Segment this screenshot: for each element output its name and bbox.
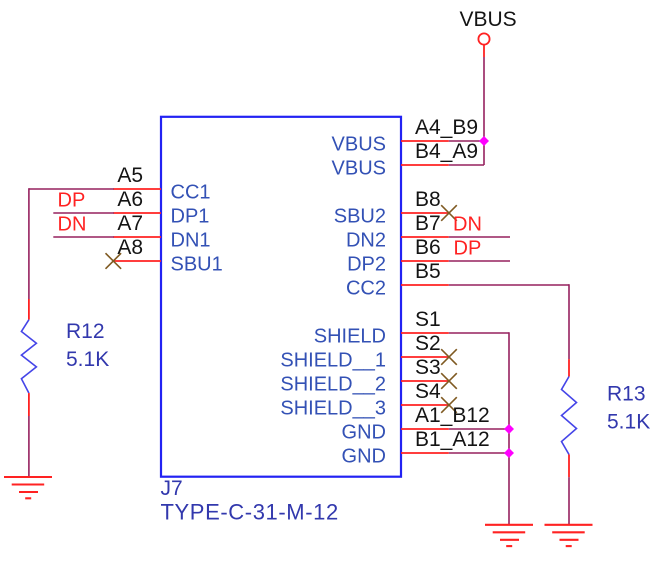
wire CC1 horizontal [29, 188, 114, 190]
svg-text:S1: S1 [415, 308, 441, 331]
no-connect X on pin SBU1 [106, 253, 122, 269]
ground symbol (R12) [4, 477, 52, 498]
svg-text:CC2: CC2 [346, 277, 386, 299]
pin CC2 (B5) [346, 260, 449, 299]
resistor R12 [21, 299, 109, 416]
pin DN1 (A7) [113, 212, 210, 251]
pin DP1 (A6) [113, 188, 209, 227]
wire DN net (left) [53, 236, 114, 238]
svg-text:A6: A6 [117, 188, 143, 211]
junction at VBUS node [479, 136, 489, 146]
svg-text:GND: GND [342, 421, 386, 443]
wire SHIELD vertical to ground [508, 332, 510, 525]
svg-text:DN: DN [58, 214, 87, 236]
no-connect X on pin SHIELD__2 [441, 373, 457, 389]
svg-text:A4_B9: A4_B9 [415, 116, 478, 139]
svg-text:GND: GND [342, 445, 386, 467]
power port VBUS [460, 8, 517, 57]
wire GND A1_B12 [449, 428, 509, 430]
svg-text:SBU1: SBU1 [171, 253, 223, 275]
svg-text:S2: S2 [415, 332, 441, 355]
no-connect X on pin SBU2 [441, 205, 457, 221]
junction at GND A1_B12 [504, 424, 514, 434]
svg-text:DP: DP [454, 238, 482, 260]
connector J7 body rectangle [161, 117, 401, 477]
svg-text:SHIELD__1: SHIELD__1 [280, 349, 386, 371]
pin SHIELD__2 (S3) [280, 356, 448, 395]
svg-text:R12: R12 [66, 320, 105, 343]
svg-text:A8: A8 [117, 236, 143, 259]
pin GND (B1_A12) [342, 428, 490, 467]
svg-text:DP1: DP1 [171, 205, 210, 227]
svg-text:SBU2: SBU2 [334, 205, 386, 227]
wire DN net (right) [449, 236, 510, 238]
svg-text:5.1K: 5.1K [66, 348, 109, 371]
svg-text:DN1: DN1 [171, 229, 211, 251]
svg-text:SHIELD: SHIELD [314, 325, 386, 347]
svg-text:VBUS: VBUS [332, 157, 386, 179]
no-connect X on pin SHIELD__3 [441, 397, 457, 413]
pin SBU1 (A8) [113, 236, 222, 275]
svg-text:DN: DN [453, 214, 482, 236]
svg-text:DN2: DN2 [346, 229, 386, 251]
svg-text:TYPE-C-31-M-12: TYPE-C-31-M-12 [161, 500, 339, 525]
svg-text:DP2: DP2 [347, 253, 386, 275]
wire R13 to ground [568, 477, 570, 525]
svg-text:DP: DP [58, 190, 86, 212]
pin SBU2 (B8) [334, 188, 449, 227]
wire CC2 horizontal [449, 284, 569, 286]
wire B4_A9 to VBUS net [449, 164, 484, 166]
ground symbol (SHIELD net) [485, 525, 533, 546]
svg-text:A7: A7 [117, 212, 143, 235]
wire SHIELD horizontal [449, 332, 509, 334]
pin VBUS (B4_A9) [332, 140, 479, 179]
pin CC1 (A5) [113, 164, 210, 203]
svg-text:SHIELD__3: SHIELD__3 [280, 397, 386, 419]
svg-text:B8: B8 [415, 188, 441, 211]
svg-text:B5: B5 [415, 260, 441, 283]
svg-text:S4: S4 [415, 380, 441, 403]
svg-text:B7: B7 [415, 212, 441, 235]
svg-text:B4_A9: B4_A9 [415, 140, 478, 163]
wire DP net (right) [449, 260, 510, 262]
svg-text:R13: R13 [607, 383, 646, 406]
wire GND B1_A12 [449, 452, 509, 454]
wire A4_B9 to VBUS net [449, 140, 484, 142]
pin DN2 (B7) [346, 212, 449, 251]
pin DP2 (B6) [347, 236, 449, 275]
svg-text:B1_A12: B1_A12 [415, 428, 490, 451]
svg-text:5.1K: 5.1K [607, 411, 650, 434]
pin SHIELD__3 (S4) [280, 380, 448, 419]
wire CC2 vertical to R13 [568, 284, 570, 359]
wire VBUS vertical [483, 57, 485, 165]
svg-text:A1_B12: A1_B12 [415, 404, 490, 427]
ground symbol (R13) [545, 525, 593, 546]
svg-text:A5: A5 [117, 164, 143, 187]
wire DP net (left) [53, 212, 114, 214]
junction at GND B1_A12 [504, 448, 514, 458]
svg-text:S3: S3 [415, 356, 441, 379]
svg-text:VBUS: VBUS [332, 133, 386, 155]
wire R12 to ground [28, 416, 30, 477]
resistor R13 [562, 359, 651, 477]
pin VBUS (A4_B9) [332, 116, 479, 155]
pin SHIELD (S1) [314, 308, 449, 347]
svg-text:J7: J7 [161, 477, 183, 500]
svg-text:VBUS: VBUS [460, 8, 517, 31]
svg-text:B6: B6 [415, 236, 441, 259]
wire left vertical to R12 [28, 188, 30, 299]
svg-text:SHIELD__2: SHIELD__2 [280, 373, 386, 395]
pin SHIELD__1 (S2) [280, 332, 448, 371]
svg-text:CC1: CC1 [171, 181, 211, 203]
no-connect X on pin SHIELD__1 [441, 349, 457, 365]
pin GND (A1_B12) [342, 404, 490, 443]
